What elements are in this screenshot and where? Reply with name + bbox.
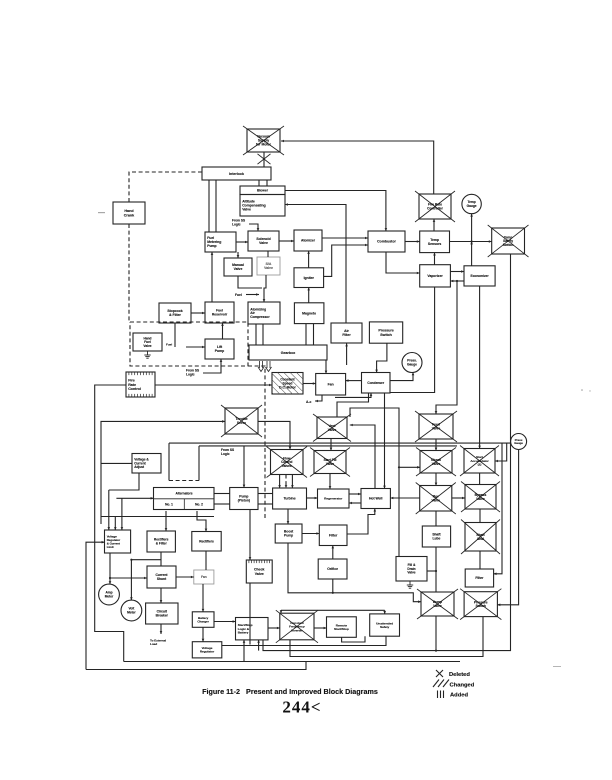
svg-text:Fan: Fan — [328, 382, 334, 386]
a-c label — [306, 400, 311, 404]
X mark on wire — [258, 154, 271, 164]
svg-text:Rectifiers: Rectifiers — [199, 539, 214, 543]
svg-text:Interlock: Interlock — [229, 172, 244, 176]
wire drop to vrcl 3 — [121, 498, 124, 530]
dashed wire to center boundary — [248, 366, 265, 520]
fan — [316, 374, 346, 396]
wire temp safety switch bottom bus — [263, 254, 511, 651]
wire dc bus — [101, 516, 214, 518]
wire shaft lube to dump valve — [435, 547, 437, 592]
manual valve — [224, 258, 252, 276]
wire battery charger to voltage regulator 2 — [202, 627, 205, 641]
wire interlock to fuel metering pump (right leg) — [215, 180, 217, 232]
svg-text:Gearbox: Gearbox — [281, 351, 296, 355]
wire condenser to hot well — [383, 393, 386, 489]
wire pressure switch x bottom to bus B2 — [290, 617, 483, 657]
gearbox — [249, 345, 327, 360]
ground below fill and drain valve — [407, 581, 413, 588]
wire start stop logic to inverter — [268, 627, 280, 630]
svg-text:BatteryCharger: BatteryCharger — [197, 616, 209, 624]
wire alternator no1 to rectifiers and filter — [165, 511, 168, 531]
wire riser to sslogic 2 — [257, 640, 260, 651]
wire fire rate control left — [95, 385, 126, 662]
vaporizer — [420, 265, 451, 287]
wire bus B4 — [86, 662, 306, 670]
wire to alternators input — [116, 497, 153, 500]
wire vacuum-to-interlock with X — [263, 152, 265, 167]
fuel level label — [166, 343, 172, 347]
filter (feedwater) — [319, 525, 347, 546]
wire riser to sslogic 1 — [243, 640, 246, 662]
flow control valves (deleted) — [267, 447, 308, 478]
wire air filter to altitude compensating valve — [285, 203, 346, 323]
wire unattended safety drop — [383, 610, 386, 614]
svg-text:Added: Added — [450, 693, 468, 699]
wire manual valve down to junction — [238, 276, 262, 288]
wire fan region up into condenser — [335, 393, 372, 397]
wire dc motor to fan — [303, 382, 316, 385]
voltage regulator 2 — [192, 642, 222, 658]
scan speck 3 — [98, 212, 105, 213]
svg-text:Press.Gauge: Press.Gauge — [407, 359, 417, 367]
wire lift pump up to fuel reservoir — [221, 323, 224, 339]
shaft seal (deleted) — [461, 520, 500, 555]
pump piston — [230, 488, 258, 510]
svg-text:ShaftLube: ShaftLube — [432, 533, 441, 541]
fuel label arrow — [246, 293, 259, 296]
solenoid valve — [248, 231, 279, 251]
wire fire rate control to dc motor — [155, 384, 272, 387]
svg-text:Filter: Filter — [475, 576, 484, 580]
from ss logic label (center) — [221, 448, 234, 456]
svg-text:Vaporizer: Vaporizer — [427, 274, 443, 278]
wire stopcock to fuel reservoir — [191, 312, 205, 315]
wire below condenser loop — [337, 393, 369, 417]
hand crank — [113, 202, 145, 224]
boost pump — [275, 524, 302, 543]
svg-text:BoostPump: BoostPump — [284, 530, 294, 538]
wire condenser to press gauge 1 — [390, 372, 414, 380]
wire pump to turbine upper — [258, 493, 273, 495]
filter right — [465, 569, 493, 587]
wire pump to check valve added — [249, 510, 252, 561]
regenerator — [318, 489, 350, 508]
fill and drain valve — [396, 557, 427, 582]
svg-text:Deleted: Deleted — [449, 672, 470, 678]
wire dump valve bottom — [435, 616, 437, 652]
dashed wire interlock to hand crank — [129, 172, 202, 202]
wire fuel reservoir to fuel metering pump — [211, 252, 214, 302]
dashed ss logic container bottom — [169, 480, 199, 482]
wire from ss logic into solenoid valve — [249, 224, 259, 231]
wire drop to vrcl 2 — [114, 517, 117, 531]
wire circuit breaker to external load — [160, 624, 163, 634]
wire from right into vacuum supply — [281, 140, 434, 194]
temp safety switch (deleted) — [488, 225, 529, 257]
wire fuel metering pump to manual valve — [237, 252, 240, 258]
fire rate control (added) — [126, 372, 155, 397]
wire bus B0 — [222, 636, 386, 645]
wire orifice down to return line — [332, 579, 334, 594]
wire junction up to temp gauge — [470, 214, 473, 242]
wire temp sensors to temp safety switch — [450, 240, 492, 243]
circuit breaker — [146, 603, 178, 624]
air filter — [331, 323, 362, 343]
turbine — [273, 488, 307, 509]
wire s/a valve to air compressor — [263, 275, 266, 302]
wire interlock to blower right leg — [266, 180, 268, 186]
svg-text:Rectifiers& Filter: Rectifiers& Filter — [154, 538, 169, 546]
svg-text:Atomizer: Atomizer — [301, 239, 316, 243]
wire combustor to temp sensors — [405, 240, 420, 243]
voltage regulator and current limit — [105, 530, 131, 553]
alternators no.1 no.2 — [154, 488, 215, 510]
bypass valve (deleted) — [461, 482, 500, 513]
unattended safety — [370, 614, 400, 636]
press gauge 1 — [402, 353, 422, 373]
atomizing air compressor — [248, 302, 280, 324]
wire fan2 to battery charger — [202, 584, 205, 612]
wire bus to unattended safety — [281, 609, 385, 611]
wire shaft seal to filter 2 — [479, 551, 481, 569]
wire economizer to vaporizer — [450, 280, 464, 283]
svg-text:HandFuelValve: HandFuelValve — [143, 336, 151, 348]
svg-text:FeedValve: FeedValve — [432, 423, 441, 431]
condenser — [362, 373, 391, 394]
svg-text:Stopcock& Filter: Stopcock& Filter — [167, 309, 182, 317]
wire left bus into vrcl — [86, 541, 105, 670]
svg-text:Fill &DrainValve: Fill &DrainValve — [407, 563, 416, 575]
wire igniter to combustor — [324, 244, 368, 277]
blower — [240, 186, 285, 195]
wire alternators to pump lower — [214, 503, 230, 505]
svg-text:VentValve: VentValve — [328, 424, 337, 432]
figure caption — [202, 687, 378, 696]
svg-text:244<: 244< — [282, 698, 321, 717]
wire stopcock down to hand fuel line — [174, 323, 176, 347]
wire condenser to fan — [346, 379, 362, 382]
wire bus drop to start accumulator — [495, 443, 507, 462]
wire air compressor to gearbox leg1 — [255, 324, 257, 345]
svg-text:RemoteStart/Stop: RemoteStart/Stop — [334, 623, 349, 631]
svg-text:Blower: Blower — [257, 188, 269, 192]
wire start accumulator down — [479, 473, 481, 485]
start fill valve (deleted) — [310, 448, 350, 477]
wire economizer junction up — [470, 242, 473, 266]
svg-text:Igniter: Igniter — [304, 276, 315, 280]
amp meter — [99, 584, 120, 605]
economizer — [464, 266, 495, 286]
wire boost pump to filter — [302, 532, 319, 535]
svg-text:Fuel: Fuel — [166, 343, 172, 347]
svg-text:ManualValve: ManualValve — [232, 263, 244, 271]
wire press gauge 2 to pressure switch x — [497, 450, 518, 607]
wire rectifiers to fan2 — [205, 551, 207, 570]
wire pump to turbine lower — [258, 503, 273, 505]
page number 244 — [282, 698, 321, 717]
wire pressure switch to condenser — [375, 343, 387, 372]
wire hot well to regenerator — [349, 502, 361, 505]
wire boost pump return line to dump valve — [288, 543, 421, 603]
constant speed dc motor (changed) — [272, 373, 303, 395]
ground below hand fuel valve — [144, 351, 150, 358]
wire magneto to igniter — [307, 288, 310, 303]
wire bus A to press gauge 2 — [169, 442, 511, 444]
legend changed — [433, 680, 475, 689]
wire throttle servo input — [101, 420, 225, 524]
wire bus B drop to pump — [243, 446, 246, 488]
wire air compressor to gearbox leg2 — [262, 324, 264, 345]
start accumulator (deleted) — [460, 446, 499, 477]
wire from ss logic to lift pump — [203, 359, 222, 373]
wire remote bottom link — [342, 636, 365, 642]
svg-text:Pump(Piston): Pump(Piston) — [238, 495, 250, 503]
wire turbine to boost pump — [287, 509, 290, 524]
wire combustor to vaporizer — [386, 252, 420, 274]
altitude compensating valve — [240, 195, 285, 217]
svg-text:TempGauge: TempGauge — [467, 200, 477, 208]
svg-text:Economizer: Economizer — [471, 274, 490, 278]
wire alternators to pump upper — [214, 493, 230, 495]
svg-text:Filter: Filter — [329, 533, 338, 537]
voltage and current adjust — [132, 454, 161, 474]
scan speck 1 — [581, 389, 591, 391]
wire orifice to filter — [332, 546, 335, 560]
svg-text:No. 2: No. 2 — [195, 503, 203, 507]
wire vrcl to amp meter — [109, 553, 112, 584]
svg-text:Hot Well: Hot Well — [369, 497, 383, 501]
wire check valve added down — [249, 583, 251, 645]
battery charger — [192, 612, 214, 628]
wire filldrain to lube junction — [427, 570, 436, 572]
svg-text:Alternators: Alternators — [175, 491, 192, 495]
wire vent valve to hot well riser — [350, 424, 375, 489]
hand fuel valve — [133, 333, 162, 351]
dump valve (deleted) — [417, 589, 458, 619]
shaft lube — [422, 526, 450, 547]
svg-text:Changed: Changed — [450, 682, 475, 688]
wire flow control valves to turbine 1 — [278, 475, 281, 489]
svg-text:No. 1: No. 1 — [165, 503, 173, 507]
wire turbine to regenerator — [307, 497, 318, 500]
wire junction to current shunt — [110, 577, 147, 580]
wire vaporizer up to temp sensors — [433, 253, 436, 265]
from ss logic label (solenoid) — [232, 219, 245, 227]
wire blower to combustor top — [285, 191, 387, 232]
press gauge 2 — [511, 434, 527, 450]
svg-text:Regenerator: Regenerator — [324, 497, 343, 501]
rev valve (deleted) — [416, 483, 456, 515]
svg-text:Turbine: Turbine — [283, 497, 295, 501]
svg-text:TempSafetySwitch: TempSafetySwitch — [503, 235, 514, 247]
wire feed valve to check valve — [435, 439, 438, 451]
to external load label — [150, 639, 166, 647]
temp gauge — [462, 194, 481, 213]
fuel metering pump — [205, 232, 236, 252]
svg-text:Fan: Fan — [201, 575, 207, 579]
wire into vca — [101, 462, 132, 464]
wire rev valve to hot well — [390, 497, 419, 500]
svg-text:CheckValve: CheckValve — [431, 458, 441, 466]
legend added — [438, 691, 469, 699]
wire atomizer to combustor — [322, 237, 368, 240]
wire vaporizer to economizer — [450, 270, 464, 273]
magneto — [294, 303, 324, 324]
wire solenoid valve to atomizer — [279, 240, 294, 243]
dashed wire hand crank down — [128, 224, 130, 322]
gearbox output chevron 2 — [266, 361, 272, 372]
wire battery charger to start stop logic — [214, 620, 236, 623]
wire rectf down to current shunt — [160, 552, 162, 566]
svg-text:CheckValve: CheckValve — [254, 568, 265, 576]
wire magneto to gearbox leg2 — [313, 324, 315, 345]
wire atomizer to igniter (up arrow) — [307, 251, 310, 268]
scan speck 2 — [553, 666, 561, 667]
wire inverter to remote — [314, 627, 327, 630]
hot well — [361, 489, 390, 509]
fan 2 (faint) — [194, 570, 214, 584]
throttle servo (deleted) — [221, 405, 262, 437]
svg-text:ThrottleServo: ThrottleServo — [235, 417, 247, 425]
wire regenerator to hot well — [349, 493, 361, 496]
wire check valve to rev valve — [435, 473, 438, 486]
dashed flow control valves to turbine 2 — [285, 475, 288, 489]
wire current shunt to circuit breaker — [160, 588, 163, 603]
svg-text:DumpValve: DumpValve — [433, 600, 442, 608]
check valve (added) — [246, 560, 272, 583]
wire rev valve to bypass valve — [452, 497, 465, 500]
remote start stop — [327, 617, 357, 638]
wire solenoid valve to s/a valve — [267, 251, 269, 257]
svg-text:Fire RateController: Fire RateController — [427, 203, 443, 211]
lift pump — [205, 339, 234, 359]
svg-text:CircuitBreaker: CircuitBreaker — [156, 610, 169, 618]
wire current shunt to fan2 — [176, 576, 194, 579]
dashed enclosure around hand fuel valve and lift pump — [130, 322, 248, 366]
wire vent valve to start fill valve — [330, 438, 333, 450]
wire ss logic container left — [168, 443, 170, 480]
wire economizer junction down to feed valve — [435, 281, 457, 414]
svg-text:A-c: A-c — [306, 400, 311, 404]
orifice — [318, 559, 347, 579]
s/a valve (faint) — [257, 257, 280, 275]
svg-text:Fuel: Fuel — [235, 293, 242, 297]
wire economizer bottom to start accumulator — [478, 286, 481, 449]
interlock — [202, 167, 271, 180]
pressure switch (deleted) — [460, 589, 501, 620]
stopcock and filter — [159, 303, 191, 323]
atomizer — [294, 230, 322, 251]
wire bus drop to filter right — [494, 443, 502, 575]
from ss logic label (lift pump) — [186, 369, 199, 377]
svg-text:Combustor: Combustor — [377, 240, 396, 244]
svg-text:Orifice: Orifice — [327, 567, 338, 571]
wire start fill valve to regenerator — [329, 474, 332, 490]
wire branch to check valve x — [398, 466, 420, 469]
wire to volt meter — [130, 559, 161, 600]
wire hand fuel to lift pump — [186, 346, 205, 349]
feed valve (deleted) — [415, 411, 457, 442]
wire bypass valve to shaft seal — [479, 509, 481, 523]
check valve (deleted) — [416, 448, 456, 477]
wire bus B — [199, 445, 457, 447]
wire throttle servo to flow control valves — [258, 421, 291, 449]
wire magneto to gearbox leg1 — [305, 324, 307, 345]
wire fuel metering pump to solenoid valve — [236, 241, 248, 244]
start stop logic and battery — [236, 618, 269, 640]
igniter — [294, 268, 324, 288]
wire fan area to air filter — [345, 344, 348, 366]
wire bus B3 — [124, 661, 460, 663]
wire temp sensors up to fire rate controller — [433, 219, 436, 231]
fire rate controller (deleted) — [415, 191, 455, 222]
pressure switch — [369, 322, 402, 343]
wire filter to hot well — [347, 509, 376, 534]
current shunt — [147, 566, 176, 588]
constant frequency inverter (deleted) — [276, 610, 318, 643]
wire rev valve to shaft lube — [435, 511, 437, 526]
svg-text:PressureSwitch: PressureSwitch — [378, 329, 393, 337]
rectifiers — [192, 532, 221, 552]
wire interlock to fuel metering pump (left leg) — [208, 180, 210, 232]
wire interlock to blower left leg — [258, 180, 260, 186]
temp sensors — [420, 231, 450, 253]
svg-text:PressGauge: PressGauge — [514, 438, 523, 445]
gearbox output chevron 1 — [258, 361, 264, 372]
wire vaporizer bottom down — [390, 287, 435, 393]
wire vca down — [109, 473, 139, 490]
svg-text:Figure 11-2 Present and Impr: Figure 11-2 Present and Improved Block D… — [202, 687, 378, 696]
svg-text:HandCrank: HandCrank — [124, 209, 135, 217]
legend deleted — [436, 670, 470, 678]
wire drop to vrcl 1 — [108, 490, 111, 530]
wire flow control valves to turbine 3 — [291, 475, 294, 489]
fuel label — [235, 293, 242, 297]
svg-text:Magneto: Magneto — [302, 311, 316, 315]
svg-text:PressureSwitch: PressureSwitch — [474, 600, 488, 608]
combustor — [368, 231, 405, 252]
wire ss logic container right — [198, 446, 200, 481]
a-c arrow from fan — [315, 395, 322, 402]
svg-text:Condenser: Condenser — [367, 381, 384, 385]
wire alternator no2 to rectifiers — [197, 511, 207, 532]
wire gearbox to fan — [325, 360, 328, 374]
vent valve (deleted) — [313, 414, 351, 442]
wire drop to inverter top — [280, 610, 283, 613]
volt meter — [121, 600, 142, 621]
wire vent row over and down to fill-drain valve — [350, 408, 399, 557]
rectifiers and filter — [147, 531, 175, 552]
vacuum supply for motor (deleted) — [243, 126, 284, 155]
fuel reservoir — [205, 302, 234, 323]
